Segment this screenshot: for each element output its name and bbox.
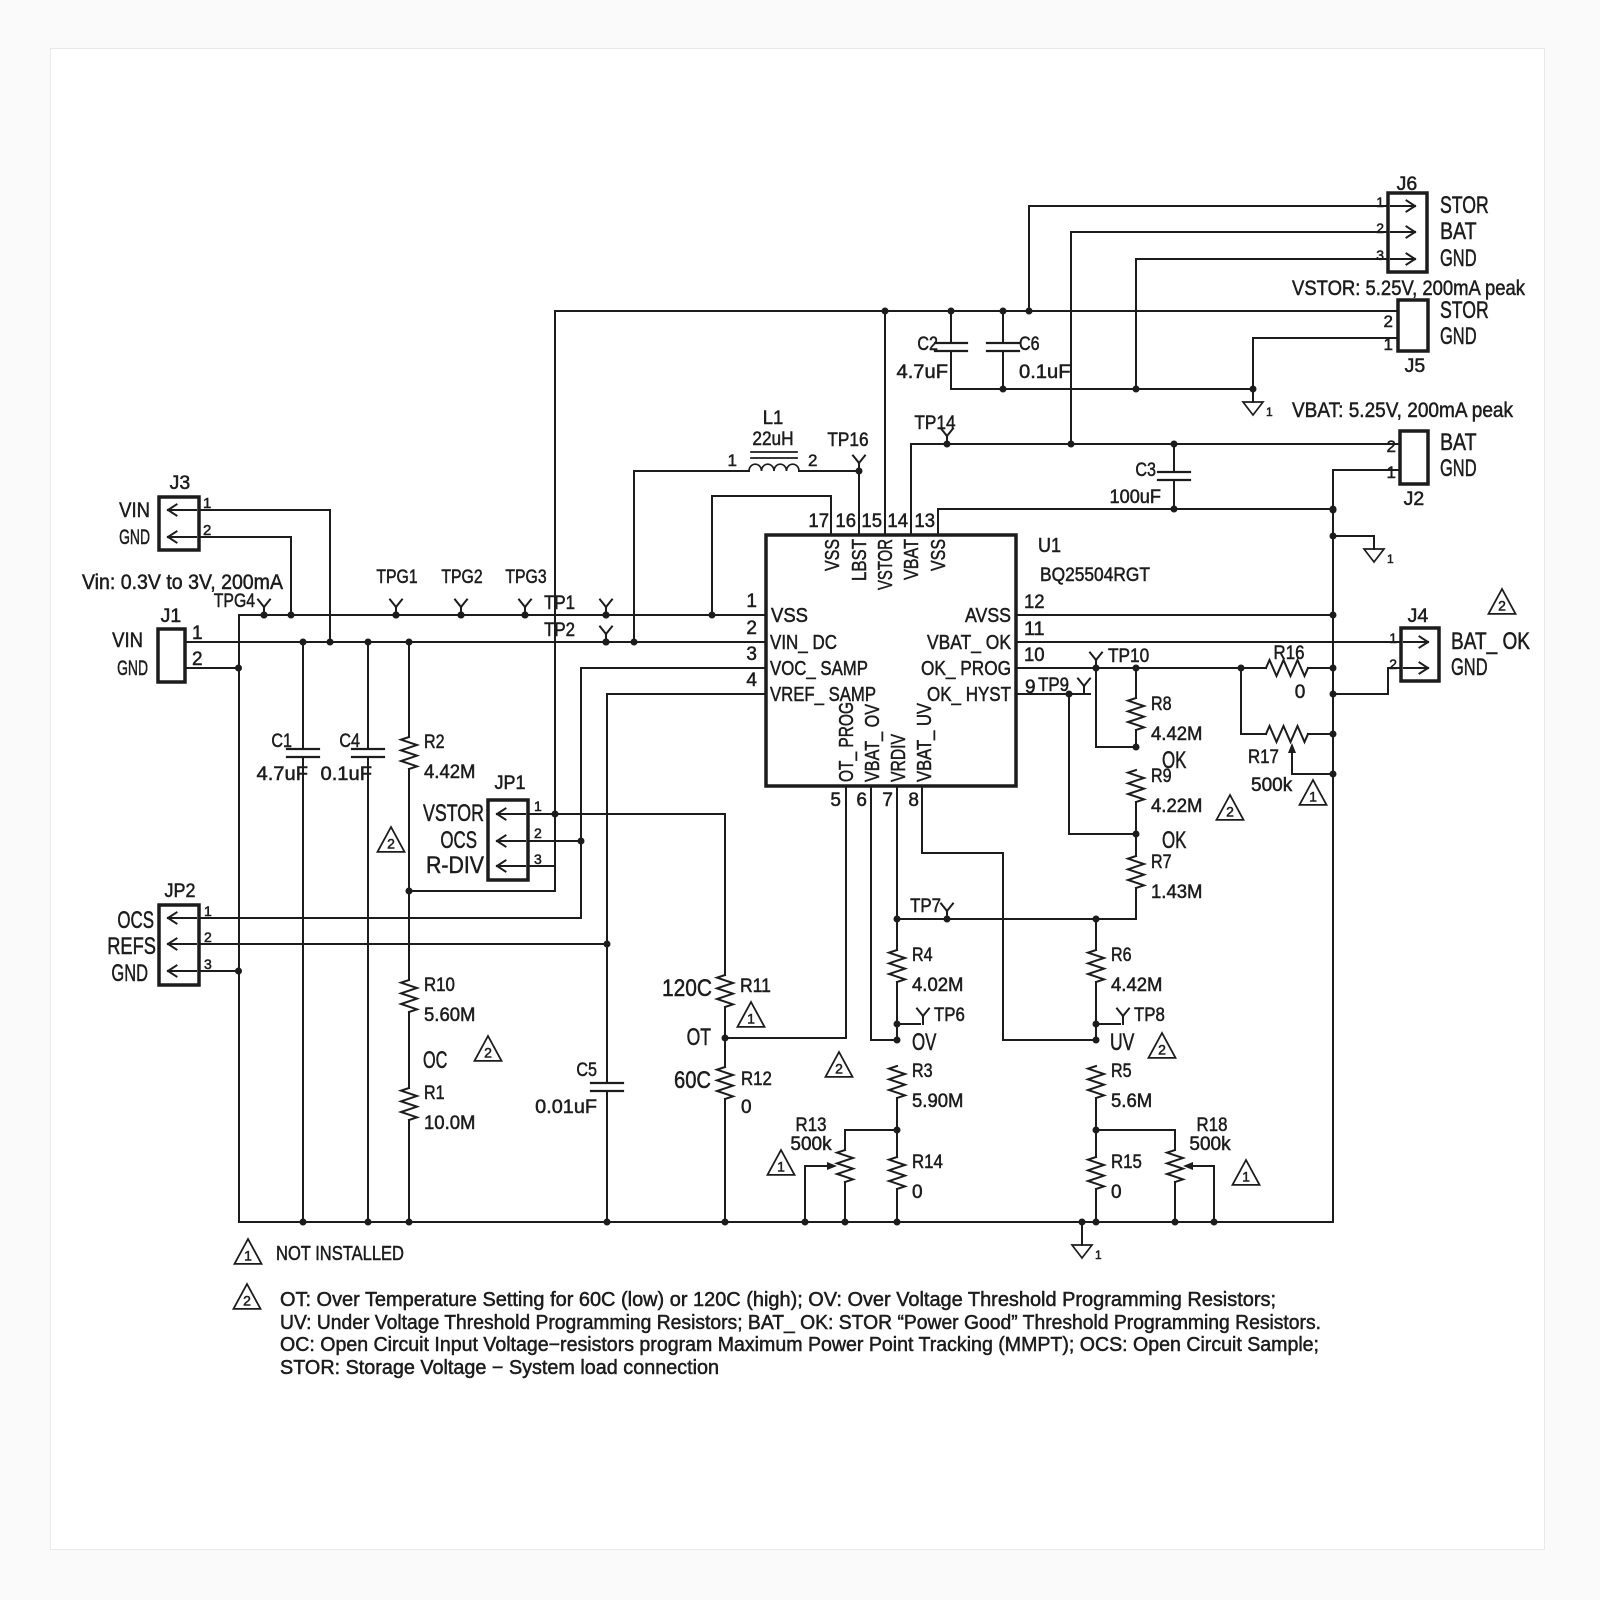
label U1 pin7 number [882, 790, 893, 811]
resistor R18 potentiometer [1167, 1130, 1183, 1222]
svg-text:JP1: JP1 [495, 773, 526, 794]
connector J3 box [159, 497, 199, 550]
svg-text:R3: R3 [912, 1061, 933, 1082]
resistor R17 potentiometer [1266, 726, 1333, 742]
connector JP1 pin2 arrow [497, 836, 525, 847]
svg-text:2: 2 [204, 929, 212, 945]
installed flag 2 legend [234, 1284, 261, 1309]
svg-text:4.7uF: 4.7uF [257, 764, 309, 785]
test point TP8 [1117, 1009, 1129, 1025]
wire VBAT_UV pin8 to UV [922, 786, 1096, 1040]
svg-text:100uF: 100uF [1110, 487, 1162, 508]
svg-text:VIN_ DC: VIN_ DC [770, 631, 837, 654]
label TP1 [544, 593, 575, 614]
wire R13 wiper [805, 1162, 837, 1222]
svg-text:15: 15 [861, 511, 882, 532]
installed flag 2 at J4 [1489, 589, 1516, 614]
wire R18 wiper [1183, 1162, 1214, 1222]
svg-text:0: 0 [912, 1182, 923, 1203]
svg-text:R9: R9 [1151, 766, 1172, 787]
wire VIN to L1 pin1 [634, 471, 749, 642]
wire VOC_SAMP to JP1/JP2 [581, 668, 766, 918]
wire GND branch to symbol [1333, 536, 1374, 549]
wire R-DIV to R2 bottom [409, 890, 555, 892]
wire J6 pin3 to GND [1136, 259, 1388, 389]
not-installed flag 1 at R18 [1233, 1160, 1260, 1185]
svg-text:STOR: STOR [1440, 192, 1489, 219]
svg-text:TPG4: TPG4 [214, 591, 256, 612]
wire TP8 tap [1096, 1023, 1120, 1025]
label R17 [1248, 747, 1279, 768]
ground symbol near J2 [1364, 536, 1394, 566]
wire J2 pin1 GND [1333, 469, 1400, 471]
connector JP2 pin2 arrow [168, 939, 196, 950]
wire J3 pin2 to GND bus [199, 537, 291, 615]
capacitor C6 [987, 311, 1019, 389]
not-installed flag 1 at R11 [738, 1002, 765, 1027]
resistor R4 [889, 919, 905, 1040]
svg-text:13: 13 [914, 511, 935, 532]
svg-text:17: 17 [808, 511, 829, 532]
svg-text:2: 2 [484, 1044, 492, 1060]
connector J6 pin3 arrow [1391, 254, 1415, 265]
label note line3 [280, 1334, 1319, 1356]
wire TP6 tap [897, 1023, 920, 1025]
connector J2 box [1400, 431, 1428, 484]
node OK_PROG dots [1093, 665, 1245, 672]
label L1 pin1 [728, 451, 737, 470]
label U1 [1038, 535, 1061, 557]
label U1 pin7 name VRDIV [887, 734, 910, 782]
label U1 pin10 number [1024, 645, 1045, 666]
svg-text:R1: R1 [424, 1083, 445, 1104]
label J6 STOR [1440, 192, 1489, 219]
svg-text:R4: R4 [912, 945, 933, 966]
svg-text:J2: J2 [1404, 489, 1425, 510]
svg-text:BAT: BAT [1440, 429, 1477, 456]
label R4 [912, 945, 933, 966]
svg-text:OK_ PROG: OK_ PROG [921, 657, 1011, 680]
label U1 pin3 VOC_SAMP [770, 657, 868, 680]
label U1 pin4 number [746, 670, 757, 691]
connector JP2 pin3 arrow [168, 966, 196, 977]
label J4 pin2 number [1389, 656, 1397, 672]
svg-text:UV: UV [1110, 1029, 1134, 1056]
wire VBAT line [911, 443, 1400, 445]
label TP8 [1134, 1005, 1165, 1026]
label J2 [1404, 489, 1425, 510]
svg-text:UV: Under Voltage Threshold Pr: UV: Under Voltage Threshold Programming … [280, 1312, 1321, 1334]
wire VSS pin13 stub [937, 509, 939, 535]
label R15 [1111, 1152, 1142, 1173]
svg-text:120C: 120C [662, 975, 712, 1002]
capacitor C1 [287, 642, 319, 1222]
label L1 value 22uH [752, 429, 793, 450]
label note line1 [280, 1289, 1276, 1311]
label R4 value [912, 975, 964, 996]
svg-text:VSS: VSS [771, 604, 808, 627]
svg-text:R17: R17 [1248, 747, 1279, 768]
wire J4 pin2 branch [1333, 668, 1401, 694]
test point TP10 [1090, 653, 1102, 669]
label R9 value [1151, 796, 1203, 817]
test point TPG4 [258, 600, 270, 619]
label TPG4 [214, 591, 256, 612]
label R3 value [912, 1091, 964, 1112]
label J1 [161, 606, 182, 627]
svg-text:R16: R16 [1274, 643, 1305, 664]
svg-text:C4: C4 [339, 731, 360, 752]
label J6 pin1 number [1376, 194, 1384, 210]
label J5 pin2 number [1384, 312, 1393, 331]
svg-text:TP1: TP1 [544, 593, 575, 614]
svg-text:4: 4 [746, 670, 757, 691]
svg-text:TP8: TP8 [1134, 1005, 1165, 1026]
label R16 [1274, 643, 1305, 664]
svg-text:BAT_ OK: BAT_ OK [1451, 628, 1530, 655]
svg-text:0: 0 [1295, 682, 1306, 703]
node GND-right junction dots [1330, 507, 1337, 778]
svg-text:3: 3 [534, 851, 542, 867]
wire bottom ground stem [1081, 1222, 1083, 1244]
svg-text:0: 0 [1111, 1182, 1122, 1203]
label Vin note [82, 571, 283, 594]
node TP9 dot [1066, 691, 1073, 698]
svg-text:BQ25504RGT: BQ25504RGT [1040, 565, 1150, 586]
svg-text:VRDIV: VRDIV [887, 734, 910, 782]
wire R17 branch [1241, 668, 1266, 734]
label C3 [1135, 460, 1156, 481]
wire L1 pin2 to TP16/LBST [799, 470, 859, 472]
svg-text:VBAT_ OK: VBAT_ OK [927, 631, 1011, 654]
svg-text:5.6M: 5.6M [1111, 1091, 1152, 1112]
node OK node2 dot [1133, 831, 1140, 838]
svg-text:VREF_ SAMP: VREF_ SAMP [770, 683, 876, 706]
resistor R14 [889, 1130, 905, 1222]
label J4 BAT_OK [1451, 628, 1530, 655]
wire VSTOR vertical to JP1 [554, 311, 556, 891]
label U1 pin14 number [887, 511, 908, 532]
svg-text:2: 2 [835, 1060, 843, 1076]
label C2 value [897, 362, 949, 383]
label R12 [741, 1069, 772, 1090]
label R10 value [424, 1005, 476, 1026]
label TPG3 [505, 567, 546, 588]
svg-text:STOR: STOR [1440, 297, 1489, 324]
svg-text:OCS: OCS [440, 827, 477, 854]
label C6 [1019, 334, 1040, 355]
label C4 value [321, 764, 373, 785]
wire OK_PROG pin10 [1016, 667, 1266, 669]
label TP10 [1108, 646, 1149, 667]
test point TP2 [600, 627, 612, 646]
node UV dot [1093, 1037, 1100, 1044]
installed flag 2 below U1 [826, 1052, 853, 1077]
node OK node1 dot [1133, 744, 1140, 751]
label R17 value 500k [1251, 775, 1293, 796]
svg-text:0.1uF: 0.1uF [1019, 362, 1071, 383]
svg-text:R12: R12 [741, 1069, 772, 1090]
label U1 pin2 VIN_DC [770, 631, 837, 654]
label JP2 pin2 number [204, 929, 212, 945]
svg-text:C6: C6 [1019, 334, 1040, 355]
svg-text:7: 7 [882, 790, 893, 811]
capacitor C5 [591, 1083, 623, 1222]
svg-text:4.22M: 4.22M [1151, 796, 1203, 817]
label J4 GND [1451, 654, 1488, 681]
svg-text:1: 1 [777, 1158, 785, 1174]
svg-text:500k: 500k [790, 1134, 832, 1155]
svg-text:1: 1 [747, 1010, 755, 1026]
svg-text:1: 1 [534, 798, 542, 814]
svg-text:4.42M: 4.42M [1111, 975, 1163, 996]
wire GND bus top [239, 614, 766, 616]
svg-text:0: 0 [741, 1097, 752, 1118]
label JP2 pin3 number [204, 956, 212, 972]
wire LBST pin16 stub [858, 471, 860, 535]
label U1 pin17 number [808, 511, 829, 532]
label JP1 pin1 number [534, 798, 542, 814]
svg-text:GND: GND [1440, 245, 1477, 272]
svg-text:1: 1 [728, 451, 737, 470]
svg-text:500k: 500k [1251, 775, 1293, 796]
label TP6 [934, 1005, 965, 1026]
svg-text:2: 2 [1498, 597, 1506, 613]
wire VBAT pin14 stub [910, 444, 912, 535]
label J6 [1397, 174, 1418, 195]
svg-text:1: 1 [204, 903, 212, 919]
label L1 pin2 [808, 451, 817, 470]
not-installed flag 1 legend [235, 1239, 262, 1264]
label J5 [1405, 356, 1426, 377]
test point TP6 [917, 1009, 929, 1025]
svg-text:14: 14 [887, 511, 908, 532]
svg-text:STOR: Storage Voltage − System: STOR: Storage Voltage − System load conn… [280, 1357, 719, 1379]
svg-text:R-DIV: R-DIV [426, 852, 484, 879]
svg-text:1: 1 [1387, 463, 1396, 482]
connector J3 pin1 arrow [168, 505, 196, 516]
label U1 pin11 VBAT_OK [927, 631, 1011, 654]
label C3 value [1110, 487, 1162, 508]
node R5 bottom dot [1093, 1127, 1100, 1134]
label C1 value [257, 764, 309, 785]
wire VSS pin17 to GND bus [712, 496, 831, 615]
svg-text:2: 2 [534, 825, 542, 841]
label J1 pin2 number [192, 649, 203, 670]
svg-text:TP9: TP9 [1038, 675, 1069, 696]
wire GND bottom rail [239, 1221, 1333, 1223]
label JP1 OCS [440, 827, 477, 854]
wire VREF_SAMP vertical [607, 694, 766, 1083]
wire VSTOR top bus [555, 310, 1398, 312]
svg-text:C2: C2 [917, 334, 938, 355]
label TPG2 [441, 567, 482, 588]
svg-text:J3: J3 [170, 473, 191, 494]
svg-text:OK: OK [1162, 827, 1186, 854]
test point TPG2 [455, 600, 467, 619]
wire VSS pin13 line [938, 508, 1333, 510]
label U1 pin16 name LBST [848, 539, 871, 581]
label U1 pin8 name VBAT_UV [913, 703, 936, 782]
wire TP7 line [897, 918, 1136, 920]
svg-text:VSTOR: 5.25V, 200mA peak: VSTOR: 5.25V, 200mA peak [1292, 277, 1525, 300]
node GND-left junction dots [235, 665, 242, 975]
svg-text:R14: R14 [912, 1152, 943, 1173]
wire R17 wiper [1288, 743, 1333, 774]
svg-text:1: 1 [746, 591, 757, 612]
label R6 value [1111, 975, 1163, 996]
svg-text:10: 10 [1024, 645, 1045, 666]
label J3 pin1 number [203, 495, 211, 512]
label OT [687, 1024, 712, 1051]
svg-text:GND: GND [117, 657, 148, 680]
svg-text:REFS: REFS [107, 933, 156, 960]
svg-text:JP2: JP2 [165, 881, 196, 902]
label J6 pin3 number [1376, 247, 1384, 263]
label VBAT note [1292, 399, 1513, 422]
wire AVSS pin12 [1016, 614, 1333, 616]
connector J4 box [1401, 628, 1439, 681]
installed flag 2 at OC [475, 1036, 502, 1061]
label U1 pin14 name VBAT [900, 539, 923, 580]
label R14 value 0 [912, 1182, 923, 1203]
label R5 [1111, 1061, 1132, 1082]
svg-text:OC: Open Circuit Input Voltage: OC: Open Circuit Input Voltage−resistors… [280, 1334, 1319, 1356]
label TP9 [1038, 675, 1069, 696]
svg-text:J6: J6 [1397, 174, 1418, 195]
label OV [912, 1029, 936, 1056]
label J2 GND [1440, 455, 1477, 482]
label R7 [1151, 852, 1172, 873]
svg-text:J5: J5 [1405, 356, 1426, 377]
svg-text:R2: R2 [424, 732, 445, 753]
label NOT INSTALLED [276, 1243, 404, 1265]
svg-text:2: 2 [808, 451, 817, 470]
label J5 GND [1440, 323, 1477, 350]
label JP2 pin1 number [204, 903, 212, 919]
label VSTOR note [1292, 277, 1525, 300]
resistor R7 [1128, 834, 1144, 919]
node OT dot [722, 1035, 729, 1042]
svg-text:16: 16 [835, 511, 856, 532]
label C5 [576, 1060, 597, 1081]
svg-text:1: 1 [1242, 1168, 1250, 1184]
connector J5 box [1398, 300, 1428, 351]
svg-text:GND: GND [119, 526, 150, 549]
svg-text:1: 1 [203, 495, 211, 512]
wire J5 pin1 to GND [1253, 338, 1398, 389]
label J2 BAT [1440, 429, 1477, 456]
label J2 pin1 number [1387, 463, 1396, 482]
svg-text:TP14: TP14 [914, 413, 956, 434]
svg-text:TP16: TP16 [827, 430, 868, 451]
connector JP2 box [159, 905, 199, 985]
svg-text:4.42M: 4.42M [424, 762, 476, 783]
resistor R8 [1128, 668, 1144, 747]
resistor R2 [401, 642, 417, 891]
svg-text:C5: C5 [576, 1060, 597, 1081]
svg-text:R13: R13 [796, 1115, 827, 1136]
svg-text:NOT INSTALLED: NOT INSTALLED [276, 1243, 404, 1265]
label R2 [424, 732, 445, 753]
resistor R11 [717, 975, 733, 1038]
svg-text:VBAT_ UV: VBAT_ UV [913, 703, 936, 782]
label JP1 pin2 number [534, 825, 542, 841]
label R5 value [1111, 1091, 1152, 1112]
label R9 [1151, 766, 1172, 787]
svg-text:1: 1 [1384, 335, 1393, 354]
svg-text:U1: U1 [1038, 535, 1061, 557]
capacitor C2 [935, 311, 967, 389]
svg-text:2: 2 [1389, 656, 1397, 672]
label UV [1110, 1029, 1134, 1056]
svg-text:R11: R11 [740, 976, 771, 997]
node TP8 dot [1093, 1021, 1100, 1028]
node REFS dot [604, 941, 611, 948]
svg-text:500k: 500k [1189, 1134, 1231, 1155]
svg-text:BAT: BAT [1440, 218, 1477, 245]
connector J3 pin2 arrow [168, 532, 196, 543]
wire J3 pin1 to VIN bus [199, 510, 330, 642]
label J3 GND [119, 526, 150, 549]
svg-text:2: 2 [243, 1292, 251, 1308]
label J5 STOR [1440, 297, 1489, 324]
label U1 part BQ25504RGT [1040, 565, 1150, 586]
label C6 value [1019, 362, 1071, 383]
wire OCS line JP2 pin1 [199, 917, 581, 919]
label J3 pin2 number [203, 522, 211, 539]
label note line2 [280, 1312, 1321, 1334]
test point TP9 [1078, 679, 1090, 695]
svg-text:TPG1: TPG1 [376, 567, 417, 588]
label U1 pin12 AVSS [965, 604, 1011, 627]
wire JP2 pin3 to GND [199, 970, 238, 972]
IC U1 box [766, 535, 1016, 786]
svg-text:AVSS: AVSS [965, 604, 1011, 627]
node TP6 dot [894, 1021, 901, 1028]
label U1 pin12 number [1024, 592, 1045, 613]
svg-text:10.0M: 10.0M [424, 1113, 476, 1134]
svg-text:R10: R10 [424, 975, 455, 996]
svg-text:1: 1 [1309, 788, 1317, 804]
svg-text:VSS: VSS [821, 539, 844, 571]
label R12 value 0 [741, 1097, 752, 1118]
svg-text:1: 1 [1266, 405, 1273, 419]
label U1 pin5 number [830, 790, 841, 811]
label U1 pin3 number [746, 644, 757, 665]
label R11 [740, 976, 771, 997]
test point TP1 [600, 600, 612, 619]
wire TP10 branch to OK node [1096, 668, 1136, 747]
label TP7 [910, 896, 941, 917]
node VBAT dots [944, 441, 1178, 448]
label U1 pin5 name OT_PROG [835, 702, 858, 782]
connector J6 pin2 arrow [1391, 227, 1415, 238]
test point TP14 [941, 429, 953, 445]
label R18 value 500k [1189, 1134, 1231, 1155]
svg-text:OCS: OCS [117, 907, 154, 934]
svg-text:GND: GND [1451, 654, 1488, 681]
wire C2/C6 ground line [951, 388, 1253, 390]
resistor R16 [1266, 660, 1333, 676]
svg-text:GND: GND [1440, 323, 1477, 350]
label R1 value [424, 1113, 476, 1134]
svg-text:0.1uF: 0.1uF [321, 764, 373, 785]
label J3 VIN [119, 499, 150, 522]
label C1 [271, 731, 292, 752]
installed flag 2 at UV [1149, 1033, 1176, 1058]
label C4 [339, 731, 360, 752]
